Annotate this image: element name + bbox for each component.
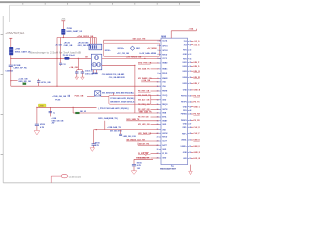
wire top bus y37 [57,37,96,39]
svg-text:SMB: SMB [162,113,167,115]
J30 pin 10 (left) [157,81,167,84]
wire vertical x50.3 [49,107,51,116]
J30 pin 14 (left) [138,98,167,101]
label C36 row [102,73,124,76]
svg-text:+WB_GB_0.1B: +WB_GB_0.1B [123,136,137,138]
net label SM_DATA_TM [136,157,149,160]
svg-text:MXD_SMB_TK: MXD_SMB_TK [126,119,140,121]
svg-text:3V3: 3V3 [184,44,187,46]
ferrite bead FB31 [61,29,65,35]
svg-text:MX30--: MX30-- [105,50,112,52]
wire vertical x60.6 drop [60,38,62,66]
svg-text:SM_GAB_TK: SM_GAB_TK [138,68,150,71]
svg-text:PERN0: PERN0 [181,114,187,116]
wire vertical x57 rail drop [56,38,58,87]
J30 pin 4 (left) [158,53,168,56]
svg-text:GND_C: GND_C [194,106,201,108]
junction main rail left [10,58,11,59]
svg-text:LL/W_GAB+ MINI8: LL/W_GAB+ MINI8 [140,52,157,55]
J30 pin 36 (right) [183,66,201,68]
svg-text:GND: GND [162,149,167,151]
J30 pin 35 (right) [183,62,201,64]
svg-text:Idtexchange to 2.5uH for 3mA l: Idtexchange to 2.5uH for 3mA load ldB [30,50,81,54]
capacitor C3L [37,79,40,86]
svg-text:4C3L_GB: 4C3L_GB [41,81,51,84]
net label +3A_GB [69,66,78,69]
label FB30 refdes +V5B [15,48,32,53]
wire yellow label net y107.3 [36,107,96,108]
J30 pin 43 (right) [183,105,201,108]
J30 pin 1 (left) [158,40,168,43]
J30 pin 52 (right) [183,152,201,154]
junction +V5B row [96,129,97,130]
label J5_GB [55,45,62,47]
J30 pin 18 (left) [138,116,167,119]
svg-text:C35B-B: C35B-B [5,71,13,73]
J30 pin 31 (right) [184,44,200,46]
svg-text:GPIO2: GPIO2 [162,50,168,52]
J30 pin 19 (left) [157,120,169,122]
svg-text:GND: GND [162,124,167,126]
note text PCSM row2 [110,101,135,104]
label C36 row2 [109,76,126,79]
power arrow below C45 [131,171,137,175]
svg-text:+V5B: +V5B [15,48,21,50]
svg-text:+V3_G: +V3_G [194,44,200,46]
wire SM_DATA y159.3 [134,158,153,160]
capacitor C30 [9,58,13,86]
J30 pin 39 (right) [183,83,201,85]
callout leader wire [51,176,61,183]
wires top bus to J5 block [91,38,97,45]
svg-text:UIM_V: UIM_V [194,83,201,85]
note text PCSM row1 [110,97,135,100]
svg-text:SMBD: SMBD [162,63,168,65]
svg-text:PERP0: PERP0 [181,120,187,122]
J30 pin 47 (right) [183,123,192,126]
svg-text:PE_TX: PE_TX [194,102,201,104]
note text +5V_CM_GB [117,53,130,55]
wire vertical x36.9 [36,107,38,124]
J30 bottom pin stub [171,165,174,168]
label C45 values [137,163,142,170]
power arrow below C3A [75,77,79,80]
junction rail y86 x57 [56,86,57,87]
sheet inner corner jog [9,5,11,22]
label MXD_GAB(SMB_TK) [98,117,118,120]
net label MX_D at choke input [85,57,88,59]
svg-text:CLK_R: CLK_R [194,127,201,129]
wire choke lower out y65 [102,64,135,66]
svg-text:PC98: PC98 [55,99,61,101]
J30 pin 33 (right) [183,54,192,56]
J30 pin 45 (right) [181,113,204,116]
net label +V3A_GB [141,79,150,82]
J30 pin 22 (left) [138,132,168,135]
J30 pin 51 (right) [181,146,201,148]
highlighted net label (yellow) [38,104,46,108]
power symbol +V5A (top-left) [9,38,12,41]
power arrow below C44 [90,148,95,152]
svg-text:MX_LED_GB: MX_LED_GB [138,124,150,126]
inductor PL30 [64,57,69,60]
svg-text:SM_CLK_TM: SM_CLK_TM [133,39,146,41]
svg-text:GND: GND [183,152,188,154]
wire main rail y58 left segment [11,57,64,59]
J30 pin 40 (right) [183,89,201,92]
svg-text:34: 34 [190,57,192,60]
wire SM row y145.2 [138,143,159,146]
svg-text:UIM1: UIM1 [183,62,187,64]
svg-text:C36 SM06M C36_GB 4B5: C36 SM06M C36_GB 4B5 [102,73,124,76]
svg-text:C36_GB 4B5 MXD: C36_GB 4B5 MXD [109,76,126,79]
capacitor C3A [75,70,78,77]
J30 pin 23 (left) [157,137,168,139]
label FB31 PJ5B [66,28,83,33]
svg-text:GB1_GB JKB: GB1_GB JKB [78,45,91,47]
svg-text:PL30 2.5uH: PL30 2.5uH [63,55,75,57]
sheet left border [1,16,4,183]
sheet top edge ruler band [0,1,200,4]
svg-text:MX30+: MX30+ [118,48,125,50]
capacitor C98 [68,95,69,97]
svg-text:5: 5 [158,58,159,60]
svg-text:BK1: BK1 [136,48,141,50]
svg-text:REQN: REQN [162,104,168,106]
svg-text:via Denmark: via Denmark [69,175,82,178]
J30 pin 48 (right) [183,126,201,129]
J30 pin 6 (left) [138,63,168,65]
svg-text:4: 4 [158,53,159,56]
power arrow x145.7 [143,152,149,156]
J30 pin 21 (left) [157,129,167,131]
J30 pin 41 (right) [181,95,204,98]
svg-text:GND: GND [183,106,188,108]
net label SM_CLK_TM [133,39,146,41]
svg-text:|_PTB PCSM GAB LATE_ED(GB) |: |_PTB PCSM GAB LATE_ED(GB) | [98,107,129,110]
J30 pin 26 (left) [157,149,167,151]
label BK05 [80,111,86,113]
wire +V5A to FB31 [62,22,64,29]
svg-text:PJ06_GB: PJ06_GB [75,96,84,98]
svg-text:MINI: MINI [161,37,166,39]
note text LL/W [140,52,157,55]
svg-text:SM_WAKE_CLK_TM: SM_WAKE_CLK_TM [126,138,145,141]
svg-text:REF+: REF+ [182,133,187,135]
svg-text:+5VB_GB_GB: +5VB_GB_GB [52,96,66,98]
svg-text:GND_B: GND_B [194,90,201,92]
J30 pin 42 (right) [181,101,200,104]
capacitor C31 [59,63,65,66]
resistor BK05 (green) [76,112,80,114]
svg-text:+3A_GB: +3A_GB [69,66,78,69]
svg-text:GND: GND [162,158,167,160]
svg-text:+5V_MXB0: +5V_MXB0 [147,48,157,50]
svg-text:23: 23 [157,137,159,139]
svg-text:JW: JW [51,123,54,125]
svg-text:26: 26 [157,149,159,151]
J30 pin 38 (right) [183,76,205,79]
svg-text:RSVD: RSVD [162,54,168,56]
J30 pin 44 (right) [183,109,191,112]
svg-text:PCSM GAB LATE_ED(GB) |: PCSM GAB LATE_ED(GB) | [110,97,135,100]
J30 pin 20 (left) [138,124,167,126]
capacitor C41 [49,112,52,113]
svg-text:1: 1 [158,41,159,43]
svg-text:WAKE: WAKE [162,77,168,80]
wire FB30 to main rail [10,55,12,58]
J30 pin 25 (left) [157,144,168,147]
J30 pin 50 (right) [181,140,204,142]
svg-text:RC30B: RC30B [14,65,21,67]
svg-text:/GB1_GB: /GB1_GB [64,45,73,47]
svg-text:C31: C31 [62,64,65,66]
svg-text:+V5B GAB_TK: +V5B GAB_TK [107,126,121,129]
J30 pin 37 (right) [183,71,205,73]
svg-text:PE_INT_GB: PE_INT_GB [138,117,149,119]
svg-text:+5V_MXD0_GB: +5V_MXD0_GB [126,57,141,59]
svg-text:MXD_GAB(SMB_TK): MXD_GAB(SMB_TK) [98,117,118,120]
svg-text:51: 51 [172,166,174,168]
wire vertical x134 down [133,159,135,164]
J30 pin 13 (left) [138,95,168,97]
wire SM_WAKE_CLK y141 [126,140,159,142]
wire J30 mount to gnd [190,165,192,172]
net label SM_ROW2 [139,144,150,146]
note box MX30 [104,43,160,56]
svg-text:32: 32 [190,50,192,52]
wire +V5B row y129.6 [94,129,159,131]
svg-text:11: 11 [157,86,159,88]
svg-text:PETN0: PETN0 [181,96,187,98]
power symbol +V5A (top middle) [61,18,66,22]
svg-text:+V5A/TA/T,EA: +V5A/TA/T,EA [5,31,24,35]
svg-text:PERN: PERN [162,91,168,93]
label +V5B GND block [51,118,64,125]
power arrow below J30 [189,171,193,174]
svg-text:UIM_P: UIM_P [194,62,201,64]
wire vertical x134.9 [134,65,135,113]
J30 pin 34 (right) [183,57,191,60]
svg-text:INTA: INTA [162,116,167,119]
J30 pin 11 (left) [157,85,167,88]
wire long rail y86 [11,85,161,87]
junction C30 bottom [10,80,11,81]
net label +5V_MXD0_GB [126,57,141,59]
J30 pin 46 (right) [181,119,201,122]
svg-text:LED_W: LED_W [194,158,201,160]
J30 pin 49 (right) [182,132,200,135]
svg-text:GND: GND [162,100,167,102]
capacitor C45 [132,165,136,166]
note box PCSM [109,95,151,104]
junction y58 x144.9 [144,58,145,59]
svg-text:USBD+: USBD+ [181,146,187,148]
svg-text:W_DS: W_DS [162,153,168,155]
svg-text:GND_D: GND_D [194,152,201,154]
net label SMB_GAB_TK [139,110,153,113]
wire choke out y58 to J30 [102,57,161,59]
label C30 values [5,65,27,73]
wire BK05 to J30 [79,112,158,114]
svg-text:+V3A: +V3A [189,27,194,30]
note text row2 left [105,50,112,52]
svg-text:33: 33 [190,54,192,56]
component G35 green body [23,83,26,85]
label PL30 2.5uH [63,55,75,57]
J30 pin 9 (left) [138,77,168,80]
label C40 values [40,124,45,129]
net label +V3A top right [189,27,194,30]
svg-text:LM07_SP_FA: LM07_SP_FA [14,67,28,70]
svg-text:CLKA: CLKA [162,40,168,43]
wire FB31 to top bus [62,35,64,38]
svg-text:GND: GND [183,124,188,126]
label SM_MXD row [102,91,134,94]
svg-text:USB_D: USB_D [194,146,201,148]
svg-text:GND: GND [183,54,188,56]
label C3L [41,81,51,84]
svg-text:SMBT: SMBT [162,121,168,123]
J30 pin 30 (right) [184,41,200,43]
label +V5B GAB [107,126,121,129]
svg-text:GNTN: GNTN [162,109,168,111]
note text BK1 [136,48,141,50]
svg-text:4.7B: 4.7B [40,126,45,129]
svg-text:47: 47 [190,123,192,126]
svg-text:PJ5B: PJ5B [67,28,73,30]
label C43 value [123,136,137,138]
label C3A C3B values [85,70,94,76]
svg-text:+V3_G: +V3_G [194,41,200,43]
svg-text:LEDW: LEDW [162,133,168,135]
svg-text:REF-: REF- [183,127,188,129]
svg-text:44: 44 [190,109,192,112]
wire SM_CLK_TM [104,40,161,43]
svg-text:+V5A_MXD0_GB: +V5A_MXD0_GB [77,35,94,38]
junction rail at x57 [56,58,61,59]
svg-text:PETP0: PETP0 [181,102,187,104]
svg-text:+5V_CM_GB: +5V_CM_GB [117,53,130,55]
J30 pin 28 (left) [138,158,167,160]
junction top bus [63,37,64,38]
J30 pin 3 (left) [158,50,168,52]
component G35 labels [18,79,31,84]
wire to BK05 [73,112,75,114]
svg-text:USBD-: USBD- [181,140,187,142]
svg-text:VCC5: VCC5 [162,58,167,60]
J30 pin 2 (left) [158,45,168,47]
svg-text:4.7B: 4.7B [95,144,100,147]
svg-text:8: 8 [158,73,159,75]
wire main rail y58 right segment [70,57,92,59]
wire +V5A to FB30 [10,41,12,47]
callout ellipse [61,174,67,177]
sheet bottom border [3,182,200,184]
J30 pin 15 (left) [138,104,168,106]
connector J30 body [161,38,188,164]
sheet inner top border [10,4,201,6]
label J30 MINI [161,37,166,39]
net label +V5A_MXD0 on top bus [77,35,94,38]
J30 pin 16 (left) [138,109,168,111]
capacitor C3B [81,70,84,77]
svg-text:UIM3: UIM3 [183,71,187,73]
svg-text:CLKQ: CLKQ [162,95,168,97]
svg-text:16V: 16V [137,168,141,170]
net label PJ06 [75,96,84,98]
power arrow below C3B [81,77,85,80]
ferrite bead FB30 [9,47,13,55]
net name +V5A/+V5M title text [5,31,24,35]
J30 pin 53 (right) [183,158,200,160]
wire cap pair tie [77,69,83,71]
choke T30 box [91,54,102,70]
svg-text:SM_DATA_TM: SM_DATA_TM [136,157,149,160]
svg-text:SM05_GABT_U5: SM05_GABT_U5 [66,30,83,33]
label +5VB_GB_GB [52,96,66,98]
wire vertical x93.6 down [93,130,95,144]
capacitor C40 [35,124,39,130]
svg-text:2: 2 [158,45,159,47]
svg-text:SMBC: SMBC [162,69,168,71]
note net label +5V_MXB0_GB [147,48,157,50]
J30 pin 32 (right) [183,50,191,52]
J30 pin 8 (left) [158,73,168,75]
label group +RC30 GB1_GB left [64,43,73,48]
note text exchange to 2.5uH [30,50,81,54]
J30 pin 7 (left) [138,68,168,71]
svg-text:UIM4: UIM4 [183,76,187,79]
svg-text:+V5A: +V5A [61,18,66,21]
wire C45 to arrow [133,166,135,171]
J30 pin 24 (left) [157,140,168,143]
svg-text:3: 3 [158,50,159,52]
wire vertical x104.8 link [104,121,106,130]
label PTB PCSM row3 [98,107,129,110]
svg-text:BROMETH_STAR SETDLS |: BROMETH_STAR SETDLS | [110,101,135,104]
label C44 values [95,142,100,147]
wire pin1 SM_CLK join [159,40,161,42]
wire stub x113.7 [113,93,115,95]
label MX_GB_KTB [110,131,122,133]
svg-text:3V3: 3V3 [184,41,187,43]
svg-text:SM05GABT/SBT: SM05GABT/SBT [160,168,177,171]
esd diode array D31 [95,91,101,96]
svg-text:UIM5: UIM5 [183,83,187,85]
wire PJ06 row [87,95,95,97]
component J5 block [89,44,102,50]
svg-text:CLK_P: CLK_P [194,133,201,135]
wire x78 drop [78,58,79,70]
svg-text:SM_MXD/GND_MXD 4B5 MXD(GB)|: SM_MXD/GND_MXD 4B5 MXD(GB)| [102,91,134,94]
svg-text:SM_BT_TM: SM_BT_TM [139,144,150,146]
svg-text:4.7B: 4.7B [137,164,142,167]
label group +RC30 GB1_GB right [78,43,91,48]
svg-text:J5_GB: J5_GB [55,45,62,47]
J30 pin 17 (left) [157,113,167,115]
wire MXD SMB y120.8 [126,120,159,122]
capacitor C44 [92,144,96,148]
net label MXD_SMB_TK [126,119,140,121]
svg-text:UIM_D: UIM_D [194,66,201,68]
capacitor C43 [119,130,122,136]
svg-text:1u: 1u [53,112,55,114]
net label SM_WAKE_CLK_TM [126,138,145,141]
wire J30 top pin to +V3A [171,29,196,38]
label C41 value [53,112,55,114]
svg-text:+V3A_GB: +V3A_GB [141,79,150,82]
